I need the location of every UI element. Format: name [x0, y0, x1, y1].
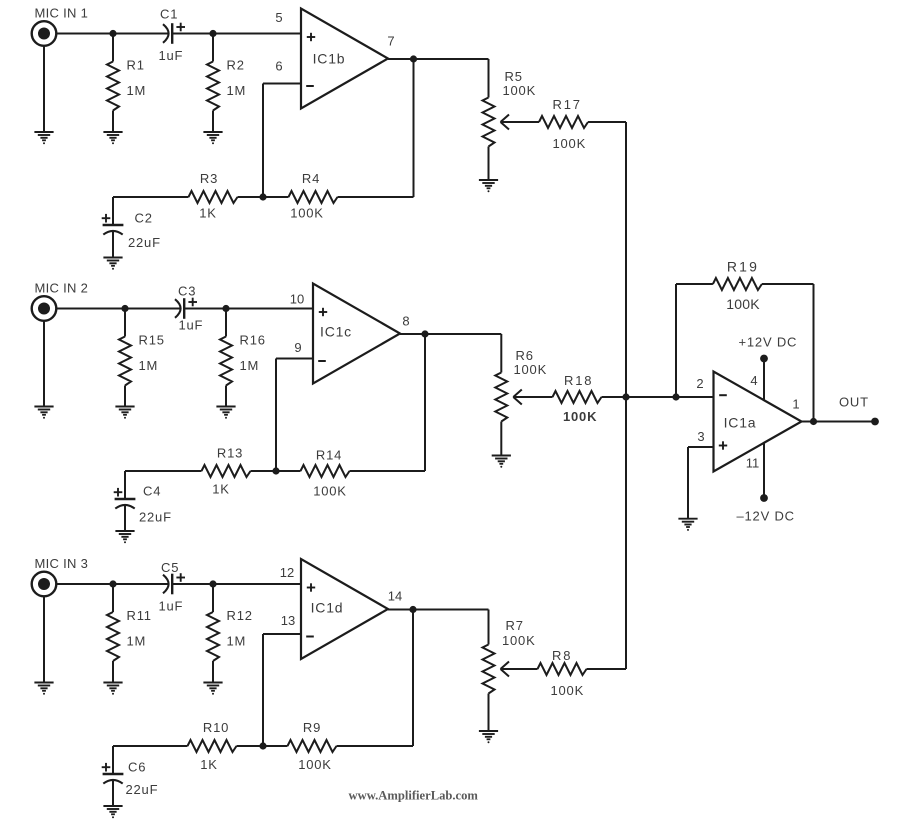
svg-text:100K: 100K: [290, 206, 324, 221]
node IC1d output junction: [409, 606, 416, 613]
svg-text:R19: R19: [727, 259, 759, 275]
svg-text:IC1c: IC1c: [320, 324, 352, 340]
svg-text:1uF: 1uF: [159, 599, 184, 614]
svg-text:C5: C5: [161, 560, 179, 575]
svg-text:–12V DC: –12V DC: [737, 509, 795, 524]
node channel 1 input junction: [109, 30, 116, 37]
ground under R5: [479, 180, 498, 192]
svg-text:IC1d: IC1d: [311, 600, 344, 616]
svg-text:1M: 1M: [127, 634, 147, 649]
wire IC1c output to pot: [400, 333, 501, 335]
svg-text:1M: 1M: [127, 83, 147, 98]
resistor R9 100K: [288, 720, 337, 772]
svg-text:10: 10: [290, 292, 304, 307]
capacitor C3 1uF: [175, 284, 203, 333]
svg-text:R13: R13: [217, 446, 243, 461]
svg-text:C1: C1: [160, 7, 178, 22]
svg-text:100K: 100K: [726, 296, 760, 312]
potentiometer R5 100K: [483, 59, 537, 180]
ground under R12: [203, 683, 222, 695]
svg-text:IC1b: IC1b: [313, 51, 346, 67]
wire IC1c inverting input to feedback node: [276, 359, 313, 472]
svg-text:R10: R10: [203, 720, 229, 735]
svg-text:R2: R2: [227, 58, 245, 73]
svg-text:R1: R1: [127, 58, 145, 73]
node channel 2 feedback junction: [272, 467, 279, 474]
terminal +12V DC: [739, 335, 798, 363]
wire IC1b inverting input to feedback node: [263, 84, 301, 198]
svg-text:3: 3: [697, 429, 704, 444]
svg-text:MIC IN 1: MIC IN 1: [35, 6, 89, 21]
wire IC1d output to pot: [388, 609, 489, 611]
capacitor C4 22uF: [114, 471, 172, 531]
svg-text:1M: 1M: [227, 83, 247, 98]
node channel 1 feedback junction: [259, 193, 266, 200]
op-amp IC1d: [280, 559, 402, 659]
mic input jack J1 MIC IN 1: [32, 6, 88, 46]
svg-text:1K: 1K: [212, 482, 230, 497]
ground under R7: [479, 731, 498, 743]
svg-text:R6: R6: [516, 348, 534, 363]
svg-text:22uF: 22uF: [139, 510, 172, 525]
op-amp IC1b: [275, 9, 394, 109]
svg-text:12: 12: [280, 565, 294, 580]
svg-text:100K: 100K: [514, 362, 548, 377]
ground under R2: [203, 132, 222, 144]
resistor R18 100K: [513, 373, 626, 424]
svg-text:R16: R16: [240, 333, 266, 348]
svg-text:R14: R14: [316, 448, 342, 463]
svg-text:1M: 1M: [139, 358, 159, 373]
svg-text:1M: 1M: [227, 634, 247, 649]
wire jack J3 to ground: [43, 596, 45, 682]
node channel 3 second junction: [209, 580, 216, 587]
resistor R13 1K: [202, 446, 251, 497]
svg-text:IC1a: IC1a: [724, 415, 757, 431]
resistor R19 100K feedback: [676, 259, 814, 422]
svg-text:1uF: 1uF: [179, 318, 204, 333]
svg-text:4: 4: [750, 373, 757, 388]
node channel 2 input junction: [121, 305, 128, 312]
svg-text:8: 8: [402, 314, 409, 329]
watermark www.AmplifierLab.com: [349, 789, 479, 803]
ground under C6: [103, 806, 122, 818]
wire -12V supply to pin 11: [763, 443, 765, 498]
wire bus to mixer input: [626, 396, 714, 398]
capacitor C5 1uF: [159, 560, 186, 614]
svg-text:13: 13: [281, 613, 295, 628]
svg-text:R17: R17: [553, 97, 582, 112]
svg-text:www.AmplifierLab.com: www.AmplifierLab.com: [349, 789, 479, 803]
wire +12V supply to pin 4: [763, 359, 765, 401]
capacitor C2 22uF: [102, 197, 161, 258]
svg-text:14: 14: [388, 589, 402, 604]
ground under R6: [492, 456, 511, 468]
ground at jack J3: [34, 683, 53, 695]
svg-text:R18: R18: [564, 373, 593, 388]
wire channel 2 input line: [56, 308, 313, 310]
svg-text:7: 7: [387, 34, 394, 49]
resistor R15 1M: [119, 309, 165, 407]
svg-text:100K: 100K: [313, 484, 347, 499]
node R19 feedback junction: [672, 393, 679, 400]
wire pin 3 to ground: [688, 447, 714, 519]
svg-text:9: 9: [294, 340, 301, 355]
resistor R1 1M: [107, 34, 146, 133]
potentiometer R6 100K: [495, 334, 547, 456]
svg-text:R15: R15: [139, 333, 165, 348]
wire channel 3 input line: [56, 583, 301, 585]
node channel 3 input junction: [109, 580, 116, 587]
svg-text:R5: R5: [505, 69, 523, 84]
svg-text:1K: 1K: [200, 757, 218, 772]
node bus R18 junction: [622, 393, 629, 400]
svg-text:R3: R3: [200, 171, 218, 186]
resistor R12 1M: [207, 584, 253, 683]
svg-text:1M: 1M: [240, 358, 260, 373]
svg-text:100K: 100K: [551, 683, 585, 698]
svg-text:R8: R8: [552, 648, 572, 663]
svg-text:C6: C6: [128, 760, 146, 775]
wire channel 1 input line: [56, 33, 301, 35]
op-amp IC1a: [696, 372, 801, 472]
node channel 3 feedback junction: [259, 742, 266, 749]
svg-text:22uF: 22uF: [128, 235, 161, 250]
node IC1b output junction: [410, 55, 417, 62]
wire jack J1 to ground: [43, 46, 45, 132]
svg-text:R7: R7: [506, 618, 524, 633]
svg-text:100K: 100K: [563, 409, 597, 424]
ground at jack J1: [34, 132, 53, 144]
svg-text:100K: 100K: [502, 633, 536, 648]
terminal OUT: [839, 395, 879, 426]
wire channel 1 feedback rail: [113, 59, 414, 197]
svg-text:100K: 100K: [553, 136, 587, 151]
node channel 2 second junction: [222, 305, 229, 312]
svg-text:1K: 1K: [199, 206, 217, 221]
wire channel 2 feedback rail: [125, 334, 425, 471]
node channel 1 second junction: [209, 30, 216, 37]
svg-text:MIC IN 3: MIC IN 3: [35, 556, 89, 571]
svg-text:C2: C2: [135, 211, 153, 226]
resistor R10 1K: [188, 720, 237, 772]
svg-text:R4: R4: [302, 171, 320, 186]
svg-text:100K: 100K: [503, 83, 537, 98]
ground under R11: [103, 683, 122, 695]
terminal -12V DC: [737, 494, 795, 523]
ground under R1: [103, 132, 122, 144]
svg-text:R11: R11: [127, 608, 152, 623]
svg-text:11: 11: [746, 456, 760, 471]
svg-text:100K: 100K: [298, 757, 332, 772]
svg-text:6: 6: [275, 59, 282, 74]
ground under C2: [103, 258, 122, 270]
svg-text:+12V DC: +12V DC: [739, 335, 798, 350]
potentiometer R7 100K: [483, 610, 536, 732]
resistor R4 100K: [289, 171, 338, 221]
svg-text:MIC IN 2: MIC IN 2: [35, 281, 89, 296]
wire summing bus vertical: [625, 122, 627, 669]
svg-text:C3: C3: [178, 284, 196, 299]
svg-text:22uF: 22uF: [126, 782, 159, 797]
wire channel 3 feedback rail: [113, 610, 413, 747]
mic input jack J3 MIC IN 3: [32, 556, 88, 596]
capacitor C6 22uF: [102, 746, 159, 806]
capacitor C1 1uF: [159, 7, 186, 64]
ground under R16: [216, 407, 235, 419]
ground at IC1a pin 3: [678, 519, 697, 531]
resistor R2 1M: [207, 34, 246, 133]
resistor R11 1M: [107, 584, 152, 683]
resistor R3 1K: [189, 171, 238, 221]
svg-text:5: 5: [275, 10, 282, 25]
node output feedback junction: [810, 418, 817, 425]
ground at jack J2: [34, 407, 53, 419]
mic input jack J2 MIC IN 2: [32, 281, 88, 321]
wire IC1b output to pot: [388, 58, 489, 60]
svg-text:R9: R9: [303, 720, 321, 735]
ground under R15: [115, 407, 134, 419]
svg-text:OUT: OUT: [839, 395, 869, 410]
ground under C4: [115, 531, 134, 543]
resistor R14 100K: [301, 448, 350, 499]
svg-text:1: 1: [792, 397, 799, 412]
op-amp IC1c: [290, 284, 410, 384]
resistor R17 100K: [501, 97, 627, 151]
node IC1c output junction: [421, 330, 428, 337]
wire IC1d inverting input to feedback node: [263, 634, 301, 746]
wire IC1a output: [802, 421, 876, 423]
resistor R16 1M: [220, 309, 266, 407]
svg-text:1uF: 1uF: [159, 48, 184, 63]
svg-text:R12: R12: [227, 608, 253, 623]
svg-text:C4: C4: [143, 484, 161, 499]
wire jack J2 to ground: [43, 321, 45, 407]
resistor R8 100K: [501, 648, 627, 698]
svg-text:2: 2: [696, 376, 703, 391]
